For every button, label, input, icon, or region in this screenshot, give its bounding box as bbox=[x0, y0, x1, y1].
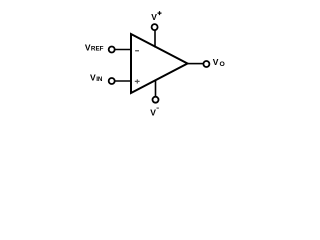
terminal V- bbox=[153, 97, 159, 103]
terminal VO bbox=[203, 61, 209, 67]
wire V+ supply bbox=[154, 30, 156, 48]
non-inverting input marker + bbox=[135, 79, 140, 83]
svg-text:V: V bbox=[213, 57, 219, 67]
svg-text:IN: IN bbox=[96, 76, 103, 83]
svg-text:V: V bbox=[90, 73, 96, 83]
terminal VIN bbox=[109, 78, 115, 84]
terminal VREF bbox=[109, 47, 115, 53]
op-amp U1 (comparator triangle) bbox=[131, 34, 188, 93]
terminal V+ bbox=[152, 24, 158, 30]
svg-text:V: V bbox=[151, 12, 157, 22]
svg-text:O: O bbox=[220, 61, 225, 68]
svg-text:REF: REF bbox=[91, 46, 104, 53]
wire VIN input bbox=[115, 80, 131, 82]
svg-text:V: V bbox=[150, 108, 156, 118]
wire VREF input bbox=[115, 49, 131, 51]
inverting input marker - bbox=[135, 50, 139, 51]
wire V- supply bbox=[155, 81, 157, 97]
wire VO output bbox=[188, 63, 204, 65]
